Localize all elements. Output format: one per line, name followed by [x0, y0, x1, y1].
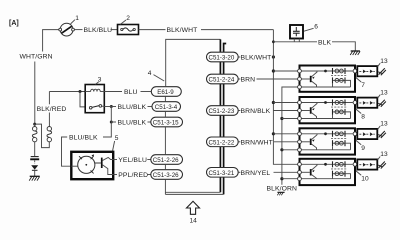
power bus BLK/WHT vertical — [273, 30, 299, 165]
connector C51-2-26 — [151, 155, 183, 165]
svg-text:E61-9: E61-9 — [157, 89, 174, 96]
svg-text:PPL/RED: PPL/RED — [118, 172, 148, 179]
fuel pump unit 5 — [71, 152, 113, 179]
connector pair chain2 — [47, 127, 52, 142]
wire BLU/BLK drop to pump — [103, 107, 111, 138]
trunk links between connectors — [164, 96, 166, 101]
spark plug 10 — [378, 162, 386, 169]
wire BLK/WHT top — [139, 29, 166, 31]
wire chain1 link to chain2 — [35, 124, 50, 148]
svg-text:[A]: [A] — [9, 20, 19, 27]
svg-text:7: 7 — [361, 82, 365, 89]
connector strip 14 left line — [219, 39, 221, 192]
ground bottom middle — [277, 192, 284, 195]
fuse F2 — [118, 25, 139, 35]
connector E61-9 — [151, 87, 181, 97]
ground bus BLK/ORN — [282, 87, 300, 185]
svg-text:1: 1 — [75, 15, 79, 22]
svg-text:9: 9 — [361, 145, 365, 152]
svg-text:BLK/BLU: BLK/BLU — [84, 27, 113, 34]
wire BLU/BLK row1 — [110, 105, 113, 108]
connector C51-3-26 — [151, 170, 183, 180]
capacitor (condenser) — [30, 142, 39, 164]
svg-text:BRN: BRN — [241, 77, 256, 84]
svg-text:14: 14 — [190, 218, 198, 225]
ignition coil unit 8 — [298, 97, 357, 123]
wire BLU — [104, 91, 122, 93]
svg-text:C51-3-20: C51-3-20 — [209, 55, 235, 62]
switch SW1 (ignition switch) — [59, 23, 75, 36]
connector C51-3-20 — [207, 52, 239, 62]
wire switch1 to left bend — [43, 30, 61, 52]
svg-text:13: 13 — [380, 58, 388, 65]
svg-text:BLK: BLK — [318, 39, 332, 46]
wire BLU/BLK row2 — [110, 121, 113, 124]
svg-text:BLK/WHT: BLK/WHT — [241, 55, 272, 62]
junction relay3 coil/contact tap — [79, 90, 82, 93]
connector pair chain1 — [32, 124, 37, 142]
junction bus top — [272, 55, 275, 58]
svg-text:13: 13 — [380, 89, 388, 96]
relay K3 — [85, 85, 104, 113]
svg-text:BLK/ORN: BLK/ORN — [267, 185, 298, 192]
spark plug 8 — [378, 100, 386, 107]
connector strip 14 right line — [224, 44, 227, 195]
svg-text:10: 10 — [361, 176, 369, 183]
wire harness return lower — [165, 191, 220, 193]
svg-text:4: 4 — [148, 70, 152, 77]
svg-text:BLK/RED: BLK/RED — [37, 106, 67, 113]
spark plug 7 — [378, 68, 386, 75]
svg-text:WHT/GRN: WHT/GRN — [20, 53, 53, 60]
ignition coil unit 10 — [298, 159, 357, 185]
wire BLK/BLU — [74, 29, 82, 31]
svg-text:C51-3-26: C51-3-26 — [153, 172, 179, 179]
wire stubs pill-to-name — [238, 56, 240, 58]
svg-text:6: 6 — [314, 24, 318, 31]
svg-text:BRN/WHT: BRN/WHT — [241, 140, 273, 147]
wire to condenser 6 — [273, 41, 317, 43]
svg-text:C51-2-22: C51-2-22 — [209, 139, 235, 146]
connector C51-3-15 — [151, 117, 183, 127]
connector C51-2-22 — [207, 137, 239, 147]
svg-text:C51-3-4: C51-3-4 — [155, 104, 178, 111]
svg-text:C51-2-23: C51-2-23 — [209, 108, 235, 115]
condenser 6 — [290, 25, 303, 42]
connector C51-2-24 — [207, 74, 239, 84]
connector C51-2-23 — [207, 106, 239, 116]
ground top right — [350, 51, 360, 55]
spark plug lead 10 — [357, 159, 377, 169]
svg-text:5: 5 — [115, 135, 119, 142]
connector C51-3-4 — [152, 102, 181, 112]
svg-text:C51-2-26: C51-2-26 — [153, 157, 179, 164]
svg-text:C51-3-21: C51-3-21 — [209, 170, 235, 177]
ignition coil unit 9 — [298, 128, 357, 154]
svg-text:C51-3-15: C51-3-15 — [153, 120, 179, 127]
polarity mark triangle — [31, 165, 38, 176]
wire PPL/RED — [113, 174, 117, 176]
spark plug 9 — [378, 131, 386, 138]
svg-text:BLU/BLK: BLU/BLK — [118, 120, 147, 127]
arrow 14 — [187, 201, 200, 224]
junction box6 tap — [272, 40, 275, 43]
svg-text:BRN/BLK: BRN/BLK — [241, 108, 271, 115]
ignition coil unit 7 — [298, 66, 357, 92]
svg-text:BRN/YEL: BRN/YEL — [241, 170, 271, 177]
svg-text:2: 2 — [126, 15, 130, 22]
spark plug lead 9 — [357, 129, 377, 139]
spark plug lead 8 — [357, 98, 377, 108]
svg-text:BLU/BLK: BLU/BLK — [69, 135, 98, 142]
wire BLK/RED vertical — [48, 92, 50, 105]
connector C51-3-21 — [207, 168, 239, 178]
junction chain1 top — [33, 123, 36, 126]
svg-text:13: 13 — [380, 121, 388, 128]
svg-text:YEL/BLU: YEL/BLU — [118, 157, 147, 164]
svg-text:BLK/WHT: BLK/WHT — [167, 27, 198, 34]
spark plug lead 7 — [357, 66, 377, 76]
wire BLK/RED horizontal from relay3 — [49, 91, 85, 93]
svg-text:BLU: BLU — [124, 89, 138, 96]
svg-text:C51-2-24: C51-2-24 — [209, 77, 235, 84]
wire ECU feed top — [166, 39, 221, 86]
ground left — [29, 176, 40, 180]
svg-text:BLU/BLK: BLU/BLK — [118, 104, 147, 111]
svg-text:13: 13 — [380, 151, 388, 158]
power bus taps to coils — [272, 69, 275, 72]
svg-text:8: 8 — [361, 114, 365, 121]
wire YEL/BLU — [113, 159, 117, 161]
wire WHT/GRN vertical — [34, 62, 36, 125]
